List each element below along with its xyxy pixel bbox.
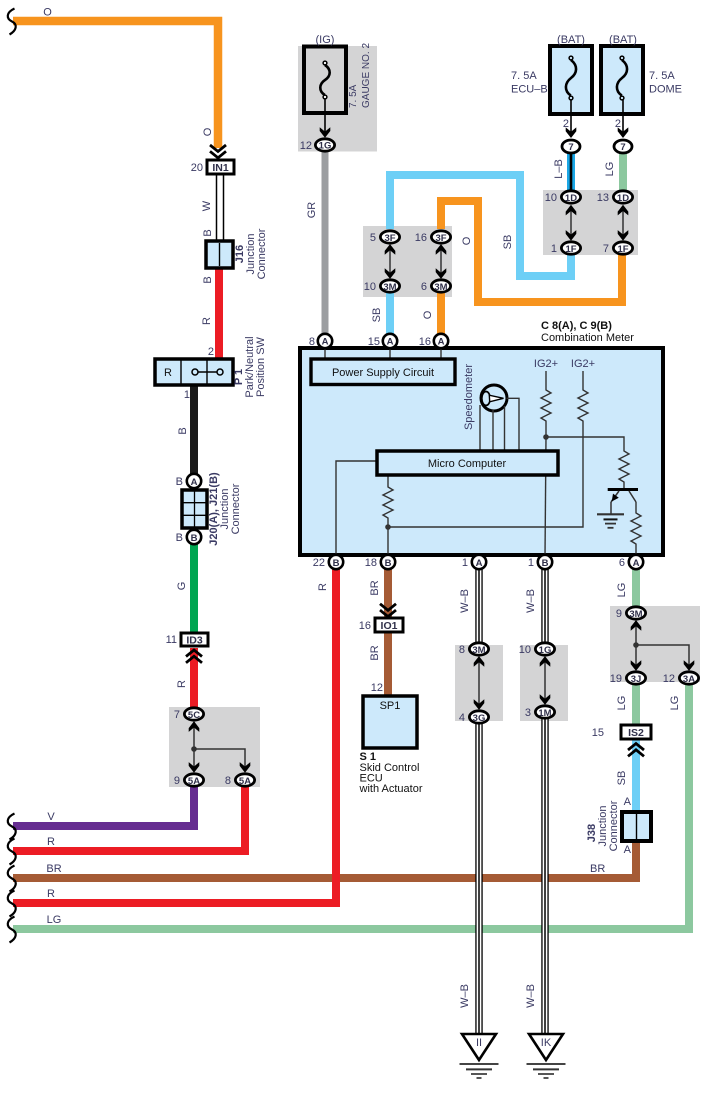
svg-text:5A: 5A [188,776,200,787]
fuse GAUGE lead to 1G [320,99,331,138]
svg-text:R: R [176,680,188,688]
shaded region for 9 3M / 19 3J / 12 3A connectors [610,606,700,682]
micro computer box [377,451,558,475]
connector oval 1 1F [551,242,581,255]
label 7.5A DOME [649,70,682,96]
svg-text:1: 1 [184,389,190,401]
wire label B below J16 [202,276,214,283]
svg-text:1: 1 [528,557,534,569]
relay block box IN1 [191,160,234,174]
shaded relay block region for GAUGE fuse [298,46,377,152]
pair arrow 3F-3M right [436,244,447,279]
label A below J38 [624,844,632,856]
svg-text:Position SW: Position SW [255,336,267,397]
svg-text:with Actuator: with Actuator [359,783,423,795]
wire W-B from meter 1B to ground IK [541,569,548,1034]
svg-text:LG: LG [604,162,616,177]
svg-text:3J: 3J [631,674,642,685]
meter internal stub 16A to power supply circuit [440,347,442,362]
svg-text:W: W [201,200,213,211]
svg-text:8: 8 [225,775,231,787]
label J20(A),J21(B) Junction Connector [208,472,242,546]
svg-text:(IG): (IG) [316,34,335,46]
connector oval 4 3G [459,711,489,724]
break squiggle on wire BR [8,866,16,892]
wire V from 9 5A to left break [13,787,194,826]
P1 pin 1 label [184,389,190,401]
svg-text:W–B: W–B [459,984,471,1008]
svg-text:3M: 3M [383,282,396,293]
wire R from 8 5A to left break [13,787,245,851]
svg-text:G: G [176,582,188,591]
meter title [541,320,634,344]
wire label LG below 3A [669,696,681,711]
wire label B above J16 [202,229,214,236]
label A above J38 [624,796,632,808]
svg-text:A: A [476,558,483,569]
svg-text:7: 7 [568,142,573,153]
wire LG horizontal from left break to 12 3A [13,685,689,929]
wire label W-B bottom right [525,984,537,1008]
connector oval 8 5A [225,774,255,787]
break squiggle on wire R2 [8,891,16,917]
wire SB from 1 1F down-left-up to 5 3F [390,175,571,276]
relay block box IS2 [592,725,651,739]
svg-text:IS2: IS2 [628,727,644,739]
svg-text:15: 15 [368,336,380,348]
svg-text:8: 8 [459,644,465,656]
wire label W-B below 1A [459,589,471,613]
skid control ECU box SP1 [363,682,417,748]
relay block box IO1 [359,618,403,632]
svg-text:IG2+: IG2+ [534,358,558,370]
chevron arrow into ID3 [186,650,202,663]
svg-text:O: O [422,310,434,319]
svg-text:Connector: Connector [608,800,620,851]
park/neutral position switch P1 [155,359,233,385]
wire label BR below IO1 [369,645,381,660]
connector oval 6 3M [421,280,451,293]
pair arrow 1D-1F right [618,205,629,241]
wire label R below 22B [317,583,329,591]
svg-text:5: 5 [370,232,376,244]
svg-text:B: B [385,558,392,569]
wire R horizontal from left break to combination meter 22B [13,569,336,903]
svg-text:B: B [202,229,214,236]
svg-text:12: 12 [371,682,383,694]
wire label B below P1 [177,427,189,434]
svg-text:7: 7 [174,709,180,721]
connector oval 16 3F [415,231,451,244]
svg-text:6: 6 [421,281,427,293]
wire BR from meter 18B to IO1 [384,569,392,618]
fuse GAUGE NO.2 box [304,47,346,114]
svg-text:13: 13 [597,192,609,204]
wire LG from meter 6A to 9 3M [632,569,640,607]
fuse ECU-B box [550,46,592,114]
junction connector J20(A) J21(B) [182,490,207,528]
svg-text:6: 6 [619,557,625,569]
relay block box ID3 [166,633,208,647]
connector oval 10 3M [364,280,400,293]
resistor to transistor base [619,448,629,488]
svg-text:L–B: L–B [553,159,565,179]
svg-text:IK: IK [541,1037,552,1049]
label P1 Park/Neutral Position SW [233,336,267,397]
wire label R left [47,836,55,848]
wire label SB above J38 [616,771,628,786]
wire label GR [306,202,318,219]
wire SB from IS2 to J38 [632,740,640,812]
pair arrow 1G-1M [540,656,551,705]
connector circle B below J20 [176,530,202,544]
label J16 Junction Connector [234,228,268,279]
connector oval 12 3A [663,672,699,685]
svg-text:GAUGE NO. 2: GAUGE NO. 2 [361,43,372,108]
svg-text:3M: 3M [434,282,447,293]
wire IG2+1 node down to 1B [545,437,546,557]
svg-text:B: B [202,276,214,283]
svg-text:3: 3 [525,707,531,719]
combination meter C8(A) C9(B) box [300,348,663,555]
power supply circuit box [311,359,455,385]
wire B from P1 pin 1 to J20 circle A [190,385,198,474]
shaded region for 8 3M / 4 3G connectors [455,645,503,721]
svg-text:A: A [438,337,445,348]
svg-text:12: 12 [663,673,675,685]
svg-text:1M: 1M [538,708,551,719]
connector oval 5 3F [370,231,400,244]
connector oval 7 under DOME [614,140,632,153]
wire label LG below 3J [616,696,628,711]
svg-text:5A: 5A [239,776,251,787]
svg-text:II: II [476,1037,482,1049]
svg-text:DOME: DOME [649,84,682,96]
pair arrow 3M-3G [474,656,485,710]
wire GR from 12 1G to meter 8A [322,152,329,334]
wire O from 7 1F down-left-up to 16 3F [441,201,622,302]
wire label BR below 18B [369,580,381,595]
svg-text:A: A [191,477,198,488]
svg-text:3G: 3G [473,713,486,724]
fuse ECU-B lead pin 2 to oval 7 [563,100,576,138]
svg-text:7: 7 [603,243,609,255]
svg-text:2: 2 [563,118,569,130]
chevron arrow into IN1 [210,145,226,158]
svg-text:19: 19 [610,673,622,685]
wire label W-B bottom left [459,984,471,1008]
junction connector J38 [622,812,651,841]
wire 22B up into micro computer [336,461,377,557]
chevron arrow into IS2 [628,744,644,757]
svg-text:12: 12 [300,140,312,152]
svg-text:Speedometer: Speedometer [463,364,475,430]
wire label LG below 6A [616,583,628,598]
connector oval 3 1M [525,706,555,719]
svg-text:Micro Computer: Micro Computer [428,458,507,470]
wire label O above 16A [422,310,434,319]
wire label W-B below 1B [525,589,537,613]
wire G from J20 circle B to ID3 [190,544,198,633]
connector oval 19 3J [610,672,646,685]
svg-text:1D: 1D [565,193,577,204]
label (BAT) over DOME [609,34,637,46]
svg-text:B: B [333,558,340,569]
svg-text:BR: BR [590,863,605,875]
meter connector oval 16 A [419,334,448,348]
svg-text:LG: LG [616,696,628,711]
svg-text:7: 7 [620,142,625,153]
wire O from battery break to IN1 [13,21,218,148]
wire label O vertical above IN1 [202,127,214,136]
arrow into 5C and branch to 5A pair [189,721,251,772]
svg-text:A: A [624,796,632,808]
svg-text:16: 16 [359,620,371,632]
svg-text:A: A [387,337,394,348]
svg-text:3F: 3F [384,233,395,244]
pair arrow 1D-1F left [566,205,577,241]
wire BR horizontal from left break to J38 [13,841,636,878]
fuse DOME lead pin 2 to oval 7 [615,100,628,138]
svg-text:W–B: W–B [459,589,471,613]
wire SB from 10 3M to meter 15A [386,293,394,334]
IG2+ label 2 [571,358,595,370]
wire R from J16 to P1 pin 2 [215,268,223,359]
resistor 18B to micro computer [383,476,393,557]
svg-text:R: R [47,888,55,900]
svg-text:C 8(A), C 9(B): C 8(A), C 9(B) [541,320,612,332]
svg-text:R: R [201,317,213,325]
IG2+ label 1 [534,358,558,370]
svg-text:SP1: SP1 [380,700,401,712]
wire label O mid route [461,236,473,245]
connector oval 10 1G [519,643,555,656]
svg-text:O: O [202,127,214,136]
label 7.5A GAUGE NO.2 rotated [348,43,372,108]
resistor transistor emitter to 6A [631,502,641,557]
wire label LG left [47,914,62,926]
wire label O top [43,7,52,19]
svg-text:3F: 3F [435,233,446,244]
label (BAT) over ECU-B [557,34,585,46]
P1 pin 2 label [208,346,214,358]
wire label BR left [46,863,61,875]
wire label LG under DOME [604,162,616,177]
svg-text:IO1: IO1 [381,620,398,632]
break squiggle on wire R [8,839,16,865]
transistor Q [608,490,638,515]
svg-text:1F: 1F [565,244,576,255]
wire LG from fuse DOME 7 to 13 1D [619,152,627,191]
svg-text:10: 10 [519,644,531,656]
meter connector oval 8 A [309,334,332,348]
svg-text:R: R [164,367,172,379]
svg-text:2: 2 [615,118,621,130]
wire IG2+2 down and left to 18B node [388,437,583,527]
svg-text:3M: 3M [472,645,485,656]
svg-text:16: 16 [419,336,431,348]
wire label V left [47,811,55,823]
wire label G [176,582,188,591]
pair arrow 3F-3M left [385,244,396,279]
svg-text:B: B [177,427,189,434]
svg-text:B: B [191,533,198,544]
connector oval 7 1F [603,242,633,255]
wire O from 6 3M to meter 16A [437,293,445,334]
svg-text:1G: 1G [539,645,552,656]
wire node to base resistor [546,437,624,448]
meter internal stub 8A to power supply circuit [324,347,326,362]
svg-text:1: 1 [462,557,468,569]
svg-text:5C: 5C [188,710,200,721]
svg-text:O: O [43,7,52,19]
arrow into 9 3M and branch to 3J 3A [631,620,695,671]
svg-text:R: R [47,836,55,848]
connector oval 12 1G [300,139,335,152]
label 7.5A ECU-B [511,70,548,96]
resistor under IG2+ 2 [578,371,588,437]
svg-text:SB: SB [502,235,514,250]
svg-text:9: 9 [174,775,180,787]
wire R from ID3 arrow to 7 5C [190,648,198,708]
wire label W [201,200,213,211]
label S1 Skid Control ECU with Actuator [359,751,423,795]
svg-text:4: 4 [459,712,465,724]
break squiggle on wire O [8,9,16,35]
chevron arrow into IO1 [380,604,396,617]
svg-text:R: R [317,583,329,591]
meter bottom connector oval 18 B [365,555,395,569]
svg-text:16: 16 [415,232,427,244]
svg-text:15: 15 [592,727,604,739]
connector oval 9 5A [174,774,204,787]
wire R from meter 22B down to horizontal R [332,569,340,903]
svg-text:BR: BR [369,645,381,660]
connector oval 13 1D [597,191,633,204]
connector circle A above J20 [176,474,202,488]
wire LG from 19 3J to IS2 [632,685,640,725]
ground symbol IK [527,1034,566,1078]
svg-text:A: A [322,337,329,348]
node junction dot on 18B line [385,524,391,530]
svg-text:IN1: IN1 [212,162,229,174]
svg-text:1F: 1F [617,244,628,255]
svg-text:O: O [461,236,473,245]
svg-text:BR: BR [369,580,381,595]
wire label R2 left [47,888,55,900]
svg-text:IG2+: IG2+ [571,358,595,370]
svg-text:ID3: ID3 [186,635,203,647]
svg-text:SB: SB [616,771,628,786]
svg-text:7. 5A: 7. 5A [649,70,675,82]
svg-text:A: A [633,558,640,569]
junction connector J16 [206,241,233,268]
svg-text:ECU–B: ECU–B [511,84,548,96]
meter bottom connector oval 1 A [462,555,486,569]
shaded region for 3F/3M connectors [363,226,452,297]
wire W from IN1 to J16 (white wire, double line) [217,174,224,241]
svg-text:W–B: W–B [525,589,537,613]
speedometer leads to micro computer [480,398,519,452]
meter connector oval 15 A [368,334,397,348]
svg-text:B: B [176,476,183,488]
svg-text:8: 8 [309,336,315,348]
wire label L-B [553,159,565,179]
svg-text:Power Supply Circuit: Power Supply Circuit [332,367,434,379]
meter bottom connector oval 6 A [619,555,643,569]
meter internal stub 15A to power supply circuit [389,347,391,362]
svg-text:7. 5A: 7. 5A [511,70,537,82]
svg-text:GR: GR [306,202,318,219]
svg-text:BR: BR [46,863,61,875]
shaded region for 10 1G / 3 1M connectors [520,645,568,721]
meter bottom connector oval 22 B [313,555,343,569]
wire label BR near J38 [590,863,605,875]
svg-text:11: 11 [166,634,177,646]
resistor under IG2+ 1 [541,371,551,437]
svg-text:22: 22 [313,557,325,569]
svg-text:V: V [47,811,55,823]
wire label SB mid route [502,235,514,250]
svg-text:3A: 3A [683,674,695,685]
connector oval 9 3M [616,607,646,620]
connector oval 10 1D [545,191,581,204]
svg-text:18: 18 [365,557,377,569]
svg-text:W–B: W–B [525,984,537,1008]
svg-text:(BAT): (BAT) [557,34,585,46]
wire label SB above 15A [371,308,383,323]
speedometer label [463,364,475,430]
svg-text:LG: LG [669,696,681,711]
wire label R above P1 [201,317,213,325]
svg-text:10: 10 [545,192,557,204]
shaded region for 1D/1F connectors [543,190,638,255]
label (IG) [316,34,335,46]
svg-text:9: 9 [616,608,622,620]
svg-text:20: 20 [191,162,203,174]
svg-text:LG: LG [616,583,628,598]
shaded region for 5C/5A connectors [169,707,260,787]
svg-text:B: B [176,532,183,544]
svg-text:A: A [624,844,632,856]
wire L-B from fuse ECU-B 7 to 10 1D [567,152,575,191]
svg-text:LG: LG [47,914,62,926]
fuse DOME box [601,46,643,114]
break squiggle on wire V [8,814,16,840]
svg-text:Connector: Connector [256,228,268,279]
wire label R above 5C [176,680,188,688]
wire W-B from meter 1A to ground II [475,569,482,1034]
svg-text:7. 5A: 7. 5A [348,84,359,108]
svg-text:1D: 1D [617,193,629,204]
speedometer gauge [481,385,507,411]
ground symbol II [460,1034,499,1078]
svg-text:(BAT): (BAT) [609,34,637,46]
svg-text:1: 1 [551,243,557,255]
wire BR from IO1 to SP1 pin 12 [384,632,392,696]
node junction dot on IG2+ 1 line [543,434,549,440]
svg-text:SB: SB [371,308,383,323]
break squiggle on wire LG [8,917,16,943]
connector oval 7 5C [174,708,204,721]
connector oval 7 under ECU-B [562,140,580,153]
svg-text:10: 10 [364,281,376,293]
meter bottom connector oval 1 B [528,555,552,569]
svg-text:Connector: Connector [230,483,242,534]
svg-text:Combination Meter: Combination Meter [541,332,634,344]
connector oval 8 3M [459,643,489,656]
svg-text:B: B [542,558,549,569]
